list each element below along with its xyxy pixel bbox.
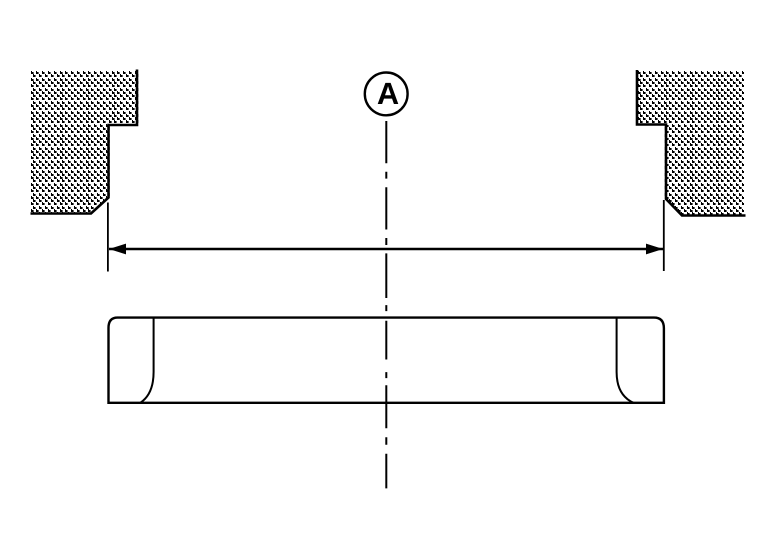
- right arrowhead: [646, 244, 663, 255]
- datum letter A glyph: [378, 83, 399, 104]
- left housing block outline: [31, 70, 138, 214]
- vertical centerline (dash-dot): [385, 121, 387, 488]
- left housing block section stipple fill: [31, 71, 141, 215]
- seal ring right inner edge: [617, 318, 634, 403]
- dimension line A: [109, 248, 663, 250]
- left arrowhead: [109, 244, 126, 255]
- right housing block outline: [637, 70, 746, 216]
- left extension line: [107, 203, 109, 272]
- right housing block section stipple fill: [635, 71, 747, 219]
- right extension line: [663, 200, 665, 271]
- datum label circle A: [365, 73, 408, 116]
- seal ring left inner edge: [140, 318, 153, 403]
- seal ring outer outline: [109, 318, 664, 403]
